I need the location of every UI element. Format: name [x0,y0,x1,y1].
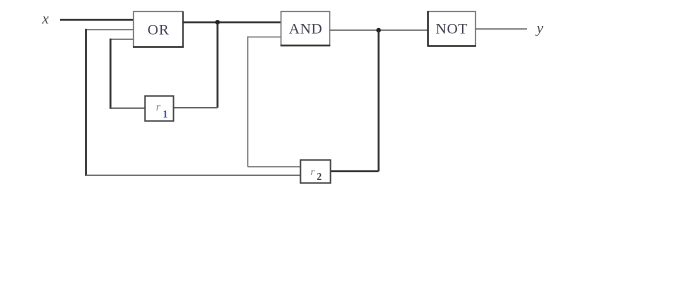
wire vertical junction to r1 input [217,22,219,107]
wire r1 output to OR input [111,38,134,40]
wire long bottom to r2 left lower [86,174,301,176]
node junction on OR output [215,20,220,25]
wire r2 right [331,170,379,172]
svg-text:2: 2 [317,172,322,183]
svg-text:1: 1 [163,110,168,121]
svg-text:r: r [311,166,316,178]
svg-text:y: y [535,21,544,37]
AND gate [281,12,331,46]
wire vertical left feedback [85,29,87,176]
wire vertical junction to r2 input [378,30,380,171]
register r2 [301,160,331,183]
NOT gate [428,11,477,47]
register r1 [145,96,174,121]
wire vertical r2 upper feedback [247,36,249,166]
wire vertical r1 feedback [110,39,112,109]
node junction on AND output [376,28,381,33]
svg-text:AND: AND [289,22,323,38]
svg-text:NOT: NOT [436,22,468,38]
wire OR output [183,21,281,23]
wire NOT output [476,28,528,30]
wire r2 output to AND input [248,36,281,38]
svg-text:OR: OR [147,23,169,39]
wire x input [60,19,134,21]
wire r1 left [111,107,146,109]
OR gate [133,12,184,48]
wire r2 output to OR input [86,29,134,31]
svg-text:r: r [156,101,161,113]
svg-text:x: x [41,12,49,28]
wire AND output [330,29,428,31]
wire r1 right [174,107,218,109]
wire r2 left upper [248,166,301,168]
